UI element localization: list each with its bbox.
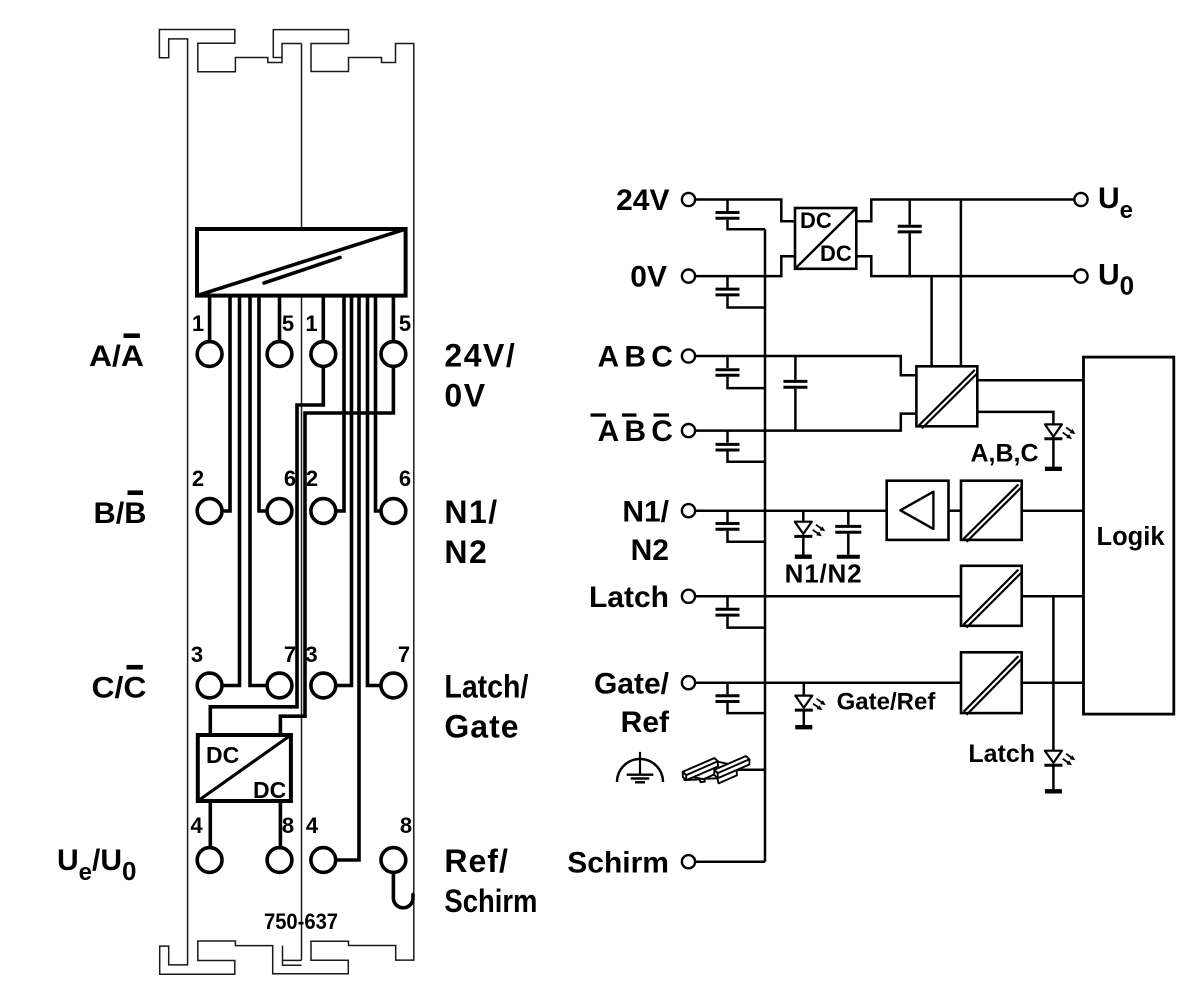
pin 3 left (C) — [197, 673, 222, 698]
wire: pin1-right stub — [321, 296, 325, 342]
pin 4 left (Ue) — [197, 848, 222, 873]
hook on pin8-right (shield) — [393, 872, 413, 907]
wire: amplifier to optocoupler N1/N2 — [949, 509, 962, 512]
wire: 24V pin1-right down-route to DC/DC — [210, 368, 323, 737]
wire: Gate/Ref to optocoupler — [695, 681, 961, 684]
svg-text:6: 6 — [284, 466, 296, 491]
capacitor N1/N2 to shield bus — [716, 511, 766, 542]
svg-text:7: 7 — [284, 642, 296, 667]
wire: pin1-left stub — [208, 296, 212, 342]
label A/A-bar — [89, 333, 144, 373]
svg-text:Latch/: Latch/ — [444, 669, 528, 705]
svg-text:ABC: ABC — [598, 341, 673, 374]
module center separator line (bottom) — [301, 296, 303, 961]
svg-text:0V: 0V — [630, 261, 667, 294]
pin 5 left (A-bar) — [267, 342, 292, 367]
svg-text:B/B: B/B — [94, 497, 147, 530]
svg-text:N1/: N1/ — [622, 495, 669, 528]
wire: supply drop B (Ue to ABC optocoupler) — [960, 200, 963, 367]
wire: right v3 (to pin4-right) — [337, 296, 360, 860]
svg-text:5: 5 — [399, 311, 411, 336]
module outline — [159, 30, 413, 975]
DIN rail icon — [683, 756, 750, 783]
pin 3 right (Latch) — [311, 673, 336, 698]
svg-text:N1/: N1/ — [444, 494, 498, 530]
capacitor Gate/Ref to shield bus — [716, 683, 766, 713]
wire: ABC-bar to optocoupler — [695, 414, 916, 431]
pin 8 left (U0) — [267, 848, 292, 873]
svg-text:1: 1 — [192, 311, 204, 336]
svg-text:ABC: ABC — [598, 415, 673, 448]
svg-text:750-637: 750-637 — [264, 909, 338, 934]
svg-text:Ref/: Ref/ — [444, 843, 508, 879]
optocoupler Latch — [961, 566, 1022, 628]
svg-text:DC: DC — [206, 742, 239, 768]
LED N1/N2 — [794, 511, 826, 557]
wire: optocoupler Gate/Ref to Logik — [1022, 681, 1084, 684]
svg-text:1: 1 — [305, 311, 317, 336]
wire: DC/DC to pin8-left — [279, 801, 283, 848]
svg-text:N2: N2 — [444, 534, 488, 570]
svg-text:0V: 0V — [444, 377, 486, 413]
svg-text:8: 8 — [400, 813, 412, 838]
wire: right v5 (to pin6-right) — [376, 296, 381, 511]
label 24V/0V — [444, 337, 516, 413]
svg-text:Latch: Latch — [968, 740, 1035, 768]
DC/DC converter box (schematic) — [795, 208, 856, 269]
capacitor Latch to shield bus — [716, 596, 766, 627]
pin 2 right (N1) — [311, 499, 336, 524]
pin 1 right (24V) — [311, 342, 336, 367]
wire: pin5-right stub — [392, 296, 396, 342]
wire: ABC to optocoupler — [695, 356, 916, 375]
wire: optocoupler ABC to LED A,B,C — [977, 412, 1053, 425]
optocoupler Gate/Ref — [961, 652, 1022, 715]
wire: pin5-left stub — [278, 296, 282, 342]
module center separator line (top) — [301, 44, 303, 230]
label Ref/Schirm — [444, 843, 537, 919]
capacitor 24V to shield bus — [716, 200, 766, 230]
Logik box — [1084, 357, 1174, 714]
pin 7 right (Gate) — [381, 673, 406, 698]
pin 6 right (N2) — [381, 499, 406, 524]
wire: 0V pin5-right down-route to DC/DC — [280, 368, 393, 737]
wire: Latch to optocoupler — [695, 595, 961, 598]
optocoupler N1/N2 — [961, 481, 1022, 542]
svg-text:Logik: Logik — [1097, 523, 1166, 551]
capacitor 0V to shield bus — [716, 276, 766, 307]
wire: DC/DC out top to Ue — [856, 200, 1074, 222]
svg-text:3: 3 — [191, 642, 203, 667]
svg-text:Schirm: Schirm — [444, 883, 537, 919]
pin 5 right (0V) — [381, 342, 406, 367]
terminal Latch — [589, 581, 695, 614]
wire: right v1 (to pin2-right) — [337, 296, 345, 511]
terminal 0V — [630, 261, 695, 294]
wire: supply drop A (U0 to ABC optocoupler) — [930, 276, 933, 366]
svg-text:Latch: Latch — [589, 581, 669, 614]
pin 4 right (Ref) — [311, 848, 336, 873]
svg-text:4: 4 — [190, 813, 203, 838]
wire: left w3 (to pin7-left) — [250, 296, 266, 686]
svg-text:Ref: Ref — [621, 706, 670, 739]
wire: DIN rail to shield bus — [735, 769, 766, 772]
DC/DC converter box (module) — [198, 735, 291, 803]
wire: 0V to DC/DC — [695, 256, 795, 276]
capacitor ABC to shield bus — [716, 356, 766, 388]
capacitor ABC-bar to shield bus — [716, 431, 766, 462]
svg-text:N1/N2: N1/N2 — [785, 559, 863, 589]
ground symbol — [617, 752, 663, 782]
svg-text:A/A: A/A — [89, 340, 144, 373]
pin 8 right (Schirm) — [381, 848, 406, 873]
LED Latch — [1044, 751, 1076, 792]
svg-text:DC: DC — [800, 208, 832, 233]
svg-text:2: 2 — [192, 466, 204, 491]
svg-text:DC: DC — [820, 241, 852, 266]
capacitor N1/N2 filter — [835, 511, 861, 557]
wire: N1/N2 to amplifier — [695, 509, 887, 512]
amplifier box — [887, 481, 949, 540]
shield bus — [764, 229, 767, 861]
label Latch/Gate — [444, 669, 528, 745]
wire: optocoupler ABC to Logik — [977, 379, 1083, 382]
wire: DC/DC to pin4-left — [209, 801, 213, 848]
pin 2 left (B) — [197, 499, 222, 524]
svg-text:Schirm: Schirm — [567, 846, 669, 879]
terminal Schirm — [567, 846, 695, 879]
wire: Latch junction down to LED — [1052, 596, 1055, 750]
pin 1 left (A) — [197, 342, 222, 367]
terminal A B C — [598, 341, 696, 374]
wire: 24V to DC/DC — [695, 200, 795, 222]
svg-text:24V: 24V — [616, 184, 669, 217]
wire: Schirm to shield bus — [695, 860, 765, 863]
svg-text:8: 8 — [282, 813, 294, 838]
isolation barrier box — [197, 229, 406, 296]
terminal N1/N2 — [622, 495, 695, 567]
svg-text:6: 6 — [399, 466, 411, 491]
svg-text:24V/: 24V/ — [444, 337, 516, 373]
svg-text:4: 4 — [306, 813, 319, 838]
wire: left w1 (to pin2-left) — [223, 296, 230, 511]
pin 7 left (C-bar) — [267, 673, 292, 698]
terminal A-bar B-bar C-bar — [591, 413, 696, 448]
LED Gate/Ref — [795, 683, 827, 728]
label C/C-bar — [92, 665, 147, 705]
svg-text:3: 3 — [305, 642, 317, 667]
wire: DC/DC out bottom to U0 — [856, 256, 1074, 276]
svg-text:7: 7 — [398, 642, 410, 667]
wire: left w2 (to pin3-left) — [223, 296, 240, 686]
pin 6 left (B-bar) — [267, 499, 292, 524]
svg-text:N2: N2 — [631, 534, 669, 567]
svg-text:Gate/Ref: Gate/Ref — [837, 688, 937, 715]
label B/B-bar — [94, 490, 147, 530]
svg-text:DC: DC — [253, 777, 286, 803]
capacitor across Ue/U0 — [898, 200, 922, 277]
optocoupler ABC — [916, 366, 977, 428]
svg-text:2: 2 — [306, 466, 318, 491]
wire: optocoupler Latch to Logik — [1022, 595, 1084, 598]
terminal U0 — [1074, 259, 1134, 301]
wire: left w4 (to pin6-left) — [259, 296, 266, 511]
terminal Gate/Ref — [594, 667, 695, 739]
svg-text:A,B,C: A,B,C — [970, 440, 1038, 468]
svg-text:Gate: Gate — [444, 709, 519, 745]
wire: right v4 (to pin7-right) — [368, 296, 381, 686]
capacitor between ABC and ABC-bar — [783, 356, 807, 431]
bottom interlock hook detail — [283, 946, 302, 966]
svg-text:5: 5 — [282, 311, 294, 336]
label N1/N2 (module) — [444, 494, 498, 570]
LED A,B,C — [1044, 424, 1076, 468]
wire: right v2 (to pin3-right) — [337, 296, 352, 686]
terminal Ue — [1074, 182, 1133, 224]
terminal 24V — [616, 184, 695, 217]
wire: optocoupler N1/N2 to Logik — [1022, 509, 1084, 512]
svg-text:Gate/: Gate/ — [594, 667, 670, 700]
svg-text:C/C: C/C — [92, 672, 147, 705]
